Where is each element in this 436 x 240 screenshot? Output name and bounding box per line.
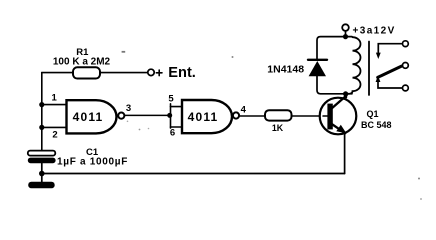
svg-text:6: 6 xyxy=(170,128,175,139)
diode D1 1N4148 xyxy=(309,61,326,76)
node collector junction xyxy=(343,91,348,96)
svg-text:Q1: Q1 xyxy=(367,109,379,119)
capacitor C1 top plate xyxy=(28,151,56,156)
wire cap to ground xyxy=(41,163,43,182)
svg-text:2: 2 xyxy=(52,130,57,141)
svg-text:4011: 4011 xyxy=(73,110,104,124)
wire pin 6 stub xyxy=(171,126,183,128)
wire left-rail to R1 xyxy=(42,72,74,74)
capacitor C1 bottom plate xyxy=(28,158,56,164)
scan noise specks xyxy=(122,51,422,200)
wire diode to bottom rail xyxy=(317,76,352,94)
svg-text:4: 4 xyxy=(241,104,247,115)
wire emitter down xyxy=(344,133,346,174)
wire collector up xyxy=(345,94,347,98)
svg-text:1: 1 xyxy=(52,92,58,103)
svg-text:3: 3 xyxy=(126,103,131,114)
svg-text:5: 5 xyxy=(168,94,174,105)
transistor Q1 xyxy=(320,95,357,134)
resistor R2 1K xyxy=(265,110,292,120)
relay core xyxy=(368,42,370,96)
wire R1 to input terminal xyxy=(100,72,147,74)
svg-text:1N4148: 1N4148 xyxy=(267,64,304,76)
wire NC contact xyxy=(378,44,402,53)
wire left rail vertical xyxy=(41,73,43,151)
svg-text:1µF a 1000µF: 1µF a 1000µF xyxy=(57,157,128,168)
wire R2 to base xyxy=(292,115,328,117)
relay common blade xyxy=(378,66,402,77)
svg-text:4011: 4011 xyxy=(188,110,219,124)
NAND gate U1a 4011 xyxy=(67,100,117,133)
wire pin3 to pins 5-6 xyxy=(124,114,169,116)
svg-text:Ent.: Ent. xyxy=(168,65,196,81)
wire relay top rail xyxy=(317,37,352,59)
NAND gate U1b 4011 xyxy=(182,100,232,133)
svg-text:1K: 1K xyxy=(272,123,284,133)
resistor R1 xyxy=(73,67,100,78)
node pin1 junction xyxy=(39,102,44,107)
svg-text:BC 548: BC 548 xyxy=(361,120,392,130)
wire pin 1 xyxy=(42,104,67,106)
node pin2 junction xyxy=(39,125,44,130)
terminal +V xyxy=(342,24,349,31)
output bubble U1b xyxy=(233,112,239,118)
wire NO contact xyxy=(378,82,402,88)
output bubble U1a xyxy=(118,113,124,119)
wire ground rail xyxy=(42,173,345,175)
ground xyxy=(28,182,55,189)
node ground junction xyxy=(39,171,45,177)
wire pin 2 xyxy=(42,126,67,128)
wire pins 5-6 tie bar xyxy=(170,104,172,128)
diode D1 cathode bar xyxy=(308,59,327,61)
svg-text:100 K a 2M2: 100 K a 2M2 xyxy=(53,56,111,67)
relay coil K1 xyxy=(346,37,361,94)
relay contact NO terminal xyxy=(403,85,409,91)
relay contact NC terminal xyxy=(403,41,409,47)
terminal Ent. xyxy=(148,69,154,75)
node junction pins 5-6 xyxy=(167,113,172,118)
relay common terminal xyxy=(403,63,409,69)
node supply junction xyxy=(343,34,348,39)
svg-text:+3a12V: +3a12V xyxy=(353,26,396,37)
wire pin 5 stub xyxy=(171,106,183,108)
wire pin4 to R2 xyxy=(239,115,265,117)
